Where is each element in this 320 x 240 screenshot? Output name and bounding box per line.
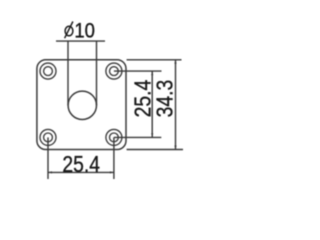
screw hole top-left inner <box>44 67 53 76</box>
vertical 25.4 dimension line <box>151 71 153 137</box>
dia10 dimension line <box>56 40 105 42</box>
arrowhead 34.3 bottom <box>174 146 176 150</box>
arrowhead bottom dim left <box>48 171 52 173</box>
dia10 right extension line <box>96 41 98 105</box>
jack plate outline <box>37 60 126 150</box>
center jack hole (diameter 10) <box>68 91 96 119</box>
arrowhead 25.4 vertical top <box>151 71 153 75</box>
extension line from top-right screw hole center <box>114 70 162 72</box>
extension line from plate top edge <box>127 59 182 61</box>
screw hole bottom-right inner <box>110 133 119 142</box>
arrowhead 25.4 vertical bottom <box>151 133 153 137</box>
screw hole bottom-left inner <box>44 133 53 142</box>
arrowhead bottom dim right <box>110 171 114 173</box>
bottom 25.4 label text <box>62 152 100 177</box>
screw hole bottom-right outer <box>106 129 122 145</box>
arrowhead 34.3 top <box>174 60 176 64</box>
svg-text:10: 10 <box>74 19 95 42</box>
extension line from bottom-right screw hole center <box>114 136 161 138</box>
screw hole bottom-left outer <box>40 129 56 145</box>
screw hole top-right inner <box>110 67 119 76</box>
screw hole top-left outer <box>40 63 56 79</box>
right 34.3 label text (rotated) <box>153 80 178 118</box>
right 25.4 label text (rotated) <box>131 80 156 118</box>
extension line down from bottom-right screw hole center <box>113 137 115 179</box>
svg-text:34.3: 34.3 <box>153 80 178 118</box>
svg-text:25.4: 25.4 <box>62 152 100 177</box>
extension line from bottom-left screw hole center <box>47 137 49 179</box>
bottom 25.4 dimension line <box>48 171 114 173</box>
dia10 label digits "10" <box>74 19 95 42</box>
extension line from plate bottom edge <box>127 149 183 151</box>
vertical 34.3 dimension line <box>175 60 177 150</box>
dia10 left extension line <box>67 41 69 105</box>
diameter symbol (phi) of dia10 label <box>65 22 73 39</box>
screw hole top-right outer <box>106 63 122 79</box>
